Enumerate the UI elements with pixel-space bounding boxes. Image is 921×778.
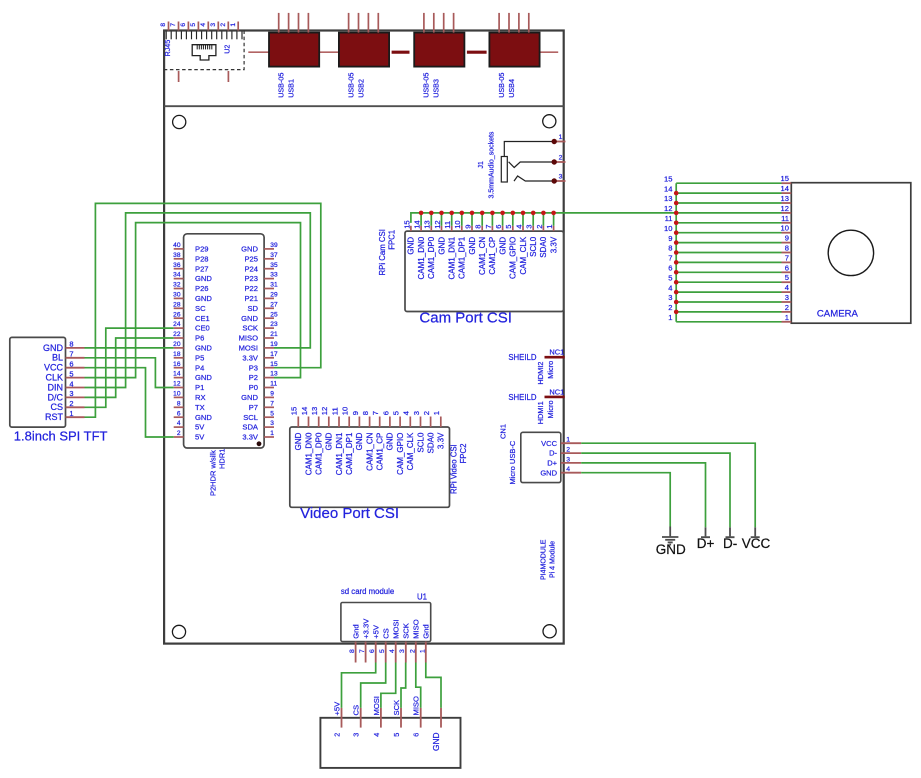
svg-text:36: 36: [173, 262, 181, 269]
svg-text:6: 6: [69, 360, 73, 369]
svg-text:CN1: CN1: [499, 424, 508, 439]
wire U1 CS to bottom connector pin3: [361, 663, 386, 708]
svg-text:14: 14: [173, 371, 181, 378]
svg-text:5: 5: [668, 273, 672, 282]
svg-text:HDMI1: HDMI1: [536, 401, 545, 424]
svg-text:14: 14: [300, 407, 309, 415]
svg-text:5: 5: [504, 225, 513, 229]
svg-text:39: 39: [270, 242, 278, 249]
svg-text:CAM1_DN0: CAM1_DN0: [304, 432, 313, 475]
svg-text:P4: P4: [195, 363, 204, 372]
svg-text:12: 12: [664, 204, 672, 213]
svg-text:PI4MODULE: PI4MODULE: [541, 539, 548, 580]
svg-text:13: 13: [781, 194, 789, 203]
svg-text:GND: GND: [656, 542, 686, 557]
svg-text:USB4: USB4: [507, 79, 516, 98]
connector CN1 Micro USB-C: [521, 432, 561, 482]
svg-text:6: 6: [381, 411, 390, 415]
svg-text:6: 6: [180, 23, 187, 27]
svg-text:12: 12: [433, 220, 442, 228]
connector USB1 USB-05: [269, 13, 319, 98]
svg-text:D/C: D/C: [48, 392, 64, 402]
svg-text:3.3V: 3.3V: [242, 433, 259, 442]
svg-text:12: 12: [320, 407, 329, 415]
svg-text:CAM1_DP0: CAM1_DP0: [427, 236, 436, 279]
svg-text:P7: P7: [249, 403, 258, 412]
svg-text:16: 16: [173, 361, 181, 368]
svg-text:CE1: CE1: [195, 314, 210, 323]
connector U3 1.8inch SPI TFT: [10, 337, 66, 427]
svg-text:15: 15: [290, 407, 299, 415]
svg-text:CAM1_CP: CAM1_CP: [376, 433, 385, 471]
svg-text:USB2: USB2: [356, 79, 365, 98]
svg-text:6: 6: [494, 225, 503, 229]
svg-text:35: 35: [270, 262, 278, 269]
svg-text:SHEILD: SHEILD: [508, 353, 537, 362]
connector J1 3.5mm audio socket: [501, 142, 554, 183]
svg-text:HDMI2: HDMI2: [536, 362, 545, 385]
svg-text:HDR1: HDR1: [218, 449, 227, 469]
svg-text:2: 2: [177, 430, 181, 437]
svg-text:Cam Port CSI: Cam Port CSI: [419, 310, 512, 327]
svg-text:19: 19: [270, 341, 278, 348]
svg-text:12: 12: [173, 381, 181, 388]
svg-text:6: 6: [412, 733, 421, 737]
svg-text:6: 6: [369, 649, 376, 653]
svg-text:3: 3: [559, 173, 563, 180]
svg-text:1: 1: [668, 313, 672, 322]
node numbers camera bus 15..1: [664, 174, 672, 322]
svg-text:1: 1: [69, 409, 73, 418]
pins bottom connector 2..6 GND: [333, 696, 442, 751]
svg-text:U2: U2: [223, 45, 232, 54]
wire camera bus: [676, 183, 781, 322]
svg-text:7: 7: [359, 649, 366, 653]
svg-text:23: 23: [270, 321, 278, 328]
component U1 sd card module: [341, 587, 431, 641]
svg-text:MISO: MISO: [412, 619, 421, 639]
svg-text:GND: GND: [241, 314, 258, 323]
svg-text:CLK: CLK: [45, 373, 63, 383]
pins FPC1 15..1 stubs numbers labels: [402, 220, 558, 279]
pin labels HDR1 left: [195, 245, 212, 442]
svg-text:NC1: NC1: [549, 387, 564, 396]
svg-text:4: 4: [514, 225, 523, 229]
svg-text:18: 18: [173, 351, 181, 358]
svg-text:9: 9: [668, 234, 672, 243]
svg-text:3.3V: 3.3V: [242, 353, 259, 362]
mounting hole bottom-left: [172, 625, 185, 638]
svg-text:SCK: SCK: [242, 324, 258, 333]
svg-text:37: 37: [270, 252, 278, 259]
svg-text:GND: GND: [195, 274, 212, 283]
svg-text:GND: GND: [195, 373, 212, 382]
wire TFT VCC to HDR1 5V pin2: [85, 368, 174, 437]
svg-text:SCL0: SCL0: [529, 236, 538, 257]
svg-text:CAM1_DN1: CAM1_DN1: [335, 432, 344, 475]
svg-text:10: 10: [664, 224, 672, 233]
svg-text:2: 2: [409, 649, 416, 653]
svg-text:CAM1_DP1: CAM1_DP1: [458, 236, 467, 279]
svg-text:RX: RX: [195, 393, 206, 402]
svg-text:CAM_CLK: CAM_CLK: [519, 236, 528, 274]
svg-text:1: 1: [545, 225, 554, 229]
wire CN1 VCC to VCC terminal: [581, 443, 755, 527]
connector FPC1 Cam Port CSI: [405, 231, 564, 311]
connector HDR1 P2HDR GPIO header: [184, 234, 265, 448]
svg-text:9: 9: [463, 225, 472, 229]
svg-text:USB-05: USB-05: [422, 73, 431, 98]
svg-text:5: 5: [270, 410, 274, 417]
svg-text:CAM1_CN: CAM1_CN: [365, 432, 374, 470]
svg-text:SC: SC: [195, 304, 206, 313]
svg-text:GND: GND: [195, 294, 212, 303]
mounting hole bottom-right: [543, 625, 556, 638]
svg-text:3: 3: [668, 293, 672, 302]
svg-text:6: 6: [177, 410, 181, 417]
svg-text:P2HDR w/silk: P2HDR w/silk: [209, 450, 218, 496]
svg-text:12: 12: [781, 204, 789, 213]
svg-text:15: 15: [664, 174, 672, 183]
svg-text:4: 4: [177, 420, 181, 427]
svg-text:1: 1: [270, 430, 274, 437]
wire U1 Gnd to bottom connector GND: [426, 663, 441, 708]
connector bottom SPI header: [320, 718, 460, 768]
svg-text:21: 21: [270, 331, 278, 338]
svg-text:Gnd: Gnd: [422, 624, 431, 638]
svg-text:15: 15: [781, 174, 789, 183]
svg-text:CAMERA: CAMERA: [817, 308, 859, 319]
svg-text:NC1: NC1: [549, 348, 564, 357]
svg-text:GND: GND: [386, 432, 395, 450]
svg-text:USB1: USB1: [287, 79, 296, 98]
svg-text:USB-05: USB-05: [346, 73, 355, 98]
svg-text:+5V: +5V: [333, 701, 342, 716]
svg-text:GND: GND: [498, 237, 507, 255]
wire USB power bus: [248, 51, 558, 53]
board outline PI4MODULE: [164, 31, 564, 644]
svg-text:28: 28: [173, 301, 181, 308]
svg-text:MOSI: MOSI: [372, 696, 381, 715]
wire CN1 GND to ground: [581, 473, 670, 527]
svg-text:GND: GND: [43, 343, 64, 353]
svg-text:J1: J1: [478, 161, 485, 169]
svg-text:SDA0: SDA0: [539, 236, 548, 257]
svg-text:5V: 5V: [195, 433, 205, 442]
svg-text:3: 3: [566, 456, 570, 463]
svg-text:10: 10: [173, 391, 181, 398]
wire U1 MOSI to bottom connector pin4: [381, 663, 396, 708]
svg-text:3: 3: [352, 733, 361, 737]
svg-text:6: 6: [785, 263, 789, 272]
svg-text:3: 3: [210, 23, 217, 27]
svg-text:15: 15: [402, 220, 411, 228]
svg-text:P23: P23: [244, 274, 258, 283]
svg-text:1: 1: [566, 437, 570, 444]
svg-text:5: 5: [785, 273, 789, 282]
terminal D-: [726, 527, 735, 537]
svg-text:8: 8: [160, 23, 167, 27]
wire CN1 D- to D- terminal: [581, 453, 730, 527]
svg-text:P3: P3: [249, 363, 258, 372]
svg-text:15: 15: [270, 361, 278, 368]
svg-text:CAM1_DN1: CAM1_DN1: [448, 236, 457, 279]
pin1 dot HDR1: [257, 441, 262, 446]
svg-text:11: 11: [781, 214, 789, 223]
svg-text:14: 14: [781, 184, 789, 193]
svg-text:MOSI: MOSI: [239, 344, 258, 353]
svg-text:P0: P0: [249, 383, 258, 392]
svg-text:SCL: SCL: [243, 413, 258, 422]
svg-text:USB-05: USB-05: [277, 73, 286, 98]
svg-text:CAM1_CN: CAM1_CN: [478, 237, 487, 275]
svg-text:GND: GND: [437, 237, 446, 255]
svg-text:FPC2: FPC2: [459, 444, 468, 464]
svg-text:RPi Cam CSI: RPi Cam CSI: [378, 229, 387, 275]
svg-text:33: 33: [270, 272, 278, 279]
svg-text:31: 31: [270, 282, 278, 289]
svg-text:MISO: MISO: [239, 334, 259, 343]
svg-text:24: 24: [173, 321, 181, 328]
svg-text:GND: GND: [195, 344, 212, 353]
svg-text:1: 1: [432, 411, 441, 415]
svg-text:+5V: +5V: [372, 624, 381, 639]
wire TFT CS to HDR1 CE0 pin24: [85, 328, 174, 407]
svg-text:2: 2: [422, 411, 431, 415]
svg-text:11: 11: [270, 381, 277, 388]
svg-text:2: 2: [220, 23, 227, 27]
svg-text:P27: P27: [195, 264, 209, 273]
svg-text:6: 6: [668, 264, 672, 273]
svg-text:13: 13: [664, 194, 672, 203]
svg-text:P1: P1: [195, 383, 204, 392]
svg-text:30: 30: [173, 292, 181, 299]
svg-text:CAM1_CP: CAM1_CP: [488, 237, 497, 275]
junction dots J1: [552, 139, 557, 184]
svg-text:GND: GND: [294, 432, 303, 450]
svg-text:27: 27: [270, 301, 278, 308]
svg-text:1: 1: [419, 649, 426, 653]
svg-text:GND: GND: [241, 393, 258, 402]
svg-text:CS: CS: [352, 705, 361, 716]
svg-text:9: 9: [785, 234, 789, 243]
svg-text:SDA: SDA: [242, 423, 259, 432]
svg-text:P25: P25: [244, 254, 258, 263]
svg-text:4: 4: [389, 649, 396, 653]
wire TFT RST to HDR1 P3 pin15: [85, 203, 321, 417]
pins HDR1 right stubs and numbers: [264, 242, 278, 437]
svg-text:MOSI: MOSI: [392, 619, 401, 638]
pins U2 top 8..1: [160, 22, 238, 31]
svg-text:2: 2: [559, 154, 563, 161]
svg-text:5: 5: [392, 411, 401, 415]
svg-text:11: 11: [665, 214, 673, 223]
svg-text:TX: TX: [195, 403, 205, 412]
svg-text:U1: U1: [417, 592, 427, 601]
svg-text:+3.3V: +3.3V: [361, 618, 370, 639]
pins U2 bottom stubs: [179, 71, 229, 82]
svg-text:1: 1: [785, 313, 789, 322]
svg-text:RJ45: RJ45: [163, 40, 172, 57]
svg-text:13: 13: [423, 220, 432, 228]
wire FPC1 pins to camera bus: [411, 213, 676, 226]
svg-text:sd card module: sd card module: [341, 587, 394, 596]
svg-text:RPi Video CSI: RPi Video CSI: [450, 444, 459, 494]
svg-text:5: 5: [190, 23, 197, 27]
svg-text:GND: GND: [241, 245, 258, 254]
svg-text:10: 10: [781, 224, 789, 233]
junction dots camera bus 14..2: [674, 191, 679, 314]
svg-text:P2: P2: [249, 373, 258, 382]
svg-text:34: 34: [173, 272, 181, 279]
svg-text:CAM_GPIO: CAM_GPIO: [396, 433, 405, 475]
svg-text:GND: GND: [355, 432, 364, 450]
svg-text:GND: GND: [468, 237, 477, 255]
svg-text:1: 1: [559, 134, 563, 141]
pins J1 1,2,3: [554, 134, 565, 181]
svg-text:Micro: Micro: [546, 400, 555, 418]
svg-text:7: 7: [371, 411, 380, 415]
svg-text:9: 9: [270, 391, 274, 398]
svg-text:5V: 5V: [195, 423, 205, 432]
svg-text:17: 17: [270, 351, 278, 358]
svg-text:CS: CS: [382, 628, 391, 639]
svg-text:7: 7: [785, 253, 789, 262]
svg-text:P24: P24: [244, 264, 258, 273]
svg-text:2: 2: [333, 733, 342, 737]
svg-text:26: 26: [173, 311, 181, 318]
svg-text:BL: BL: [52, 353, 63, 363]
svg-text:25: 25: [270, 311, 278, 318]
svg-text:P26: P26: [195, 284, 209, 293]
svg-text:D-: D-: [549, 449, 557, 458]
wire TFT D/C to HDR1 P6 pin22: [85, 338, 174, 397]
svg-text:7: 7: [69, 350, 73, 359]
pins U1 8..1 stubs numbers labels: [349, 618, 431, 663]
ground symbol GND: [662, 527, 678, 545]
mounting hole top-right: [543, 115, 556, 128]
pins CN1 1-4: [540, 437, 581, 478]
svg-text:8: 8: [177, 400, 181, 407]
svg-text:10: 10: [453, 220, 462, 228]
svg-text:8: 8: [785, 244, 789, 253]
svg-text:29: 29: [270, 292, 278, 299]
junction dots FPC1 pins 14..1: [419, 211, 556, 216]
svg-text:8: 8: [474, 225, 483, 229]
svg-text:D+: D+: [547, 459, 557, 468]
wire TFT CLK to HDR1 P2 pin13: [85, 223, 301, 378]
svg-text:4: 4: [566, 466, 570, 473]
svg-text:2: 2: [785, 303, 789, 312]
wire U1 MISO to bottom connector pin6: [416, 663, 421, 708]
svg-text:5: 5: [69, 369, 73, 378]
svg-text:CAM_GPIO: CAM_GPIO: [509, 237, 518, 279]
pins HDR1 left stubs and numbers: [173, 242, 183, 437]
svg-text:20: 20: [173, 341, 181, 348]
svg-text:P29: P29: [195, 245, 209, 254]
svg-text:8: 8: [349, 649, 356, 653]
svg-text:4: 4: [402, 411, 411, 415]
svg-text:3.3V: 3.3V: [549, 236, 558, 253]
svg-text:14: 14: [664, 184, 672, 193]
svg-text:CAM_CLK: CAM_CLK: [406, 432, 415, 470]
svg-text:7: 7: [668, 254, 672, 263]
svg-text:40: 40: [173, 242, 181, 249]
svg-text:P22: P22: [244, 284, 258, 293]
svg-text:SCK: SCK: [402, 623, 411, 639]
svg-text:FPC1: FPC1: [388, 230, 397, 250]
terminal D+: [701, 527, 710, 537]
svg-text:22: 22: [173, 331, 181, 338]
svg-text:8: 8: [668, 244, 672, 253]
svg-text:1.8inch SPI TFT: 1.8inch SPI TFT: [14, 429, 108, 444]
terminal VCC: [751, 527, 760, 537]
svg-text:7: 7: [170, 23, 177, 27]
svg-text:11: 11: [330, 407, 339, 415]
svg-text:MISO: MISO: [412, 696, 421, 716]
svg-text:SDA0: SDA0: [426, 432, 435, 453]
svg-text:SD: SD: [247, 304, 258, 313]
pins TFT 8..1 stubs numbers labels: [43, 340, 85, 422]
svg-text:1: 1: [230, 23, 237, 27]
connector USB4 USB-05: [489, 13, 539, 98]
svg-text:8: 8: [361, 411, 370, 415]
svg-text:GND: GND: [325, 432, 334, 450]
svg-text:32: 32: [173, 282, 181, 289]
svg-text:D-: D-: [723, 536, 737, 551]
svg-text:5: 5: [379, 649, 386, 653]
pins CAMERA 15..1: [781, 174, 792, 322]
connector U2 RJ45: [164, 31, 244, 70]
svg-text:3: 3: [412, 411, 421, 415]
component CAMERA module: [791, 183, 911, 324]
svg-text:VCC: VCC: [44, 363, 64, 373]
svg-text:Micro: Micro: [546, 361, 555, 379]
svg-text:USB-05: USB-05: [497, 73, 506, 98]
pins FPC2 15..1 stubs numbers labels: [290, 407, 446, 476]
svg-text:4: 4: [372, 733, 381, 737]
mounting hole top-left: [173, 115, 186, 128]
svg-text:VCC: VCC: [742, 536, 771, 551]
connector USB2 USB-05: [339, 13, 389, 98]
svg-text:2: 2: [566, 447, 570, 454]
wire U1 SCK to bottom connector pin5: [401, 663, 406, 708]
svg-text:3: 3: [785, 293, 789, 302]
svg-text:3.3V: 3.3V: [437, 432, 446, 449]
svg-text:8: 8: [69, 340, 73, 349]
svg-text:CE0: CE0: [195, 324, 210, 333]
svg-text:CS: CS: [50, 402, 63, 412]
wire TFT BL to HDR1 P1 pin12: [85, 358, 174, 388]
wire CN1 D+ to D+ terminal: [581, 463, 705, 527]
svg-text:GND: GND: [407, 237, 416, 255]
svg-text:13: 13: [310, 407, 319, 415]
svg-text:Gnd: Gnd: [351, 624, 360, 638]
svg-text:RST: RST: [45, 412, 64, 422]
svg-text:P5: P5: [195, 353, 204, 362]
svg-text:CAM1_DN0: CAM1_DN0: [417, 236, 426, 279]
svg-text:7: 7: [270, 400, 274, 407]
svg-text:2: 2: [535, 225, 544, 229]
svg-text:3.5mmAudio_sockets: 3.5mmAudio_sockets: [489, 131, 496, 198]
svg-text:38: 38: [173, 252, 181, 259]
svg-text:13: 13: [270, 371, 278, 378]
svg-text:Micro USB-C: Micro USB-C: [508, 440, 517, 484]
svg-text:3: 3: [69, 389, 73, 398]
svg-text:3: 3: [399, 649, 406, 653]
svg-text:10: 10: [341, 407, 350, 415]
svg-text:5: 5: [392, 733, 401, 737]
